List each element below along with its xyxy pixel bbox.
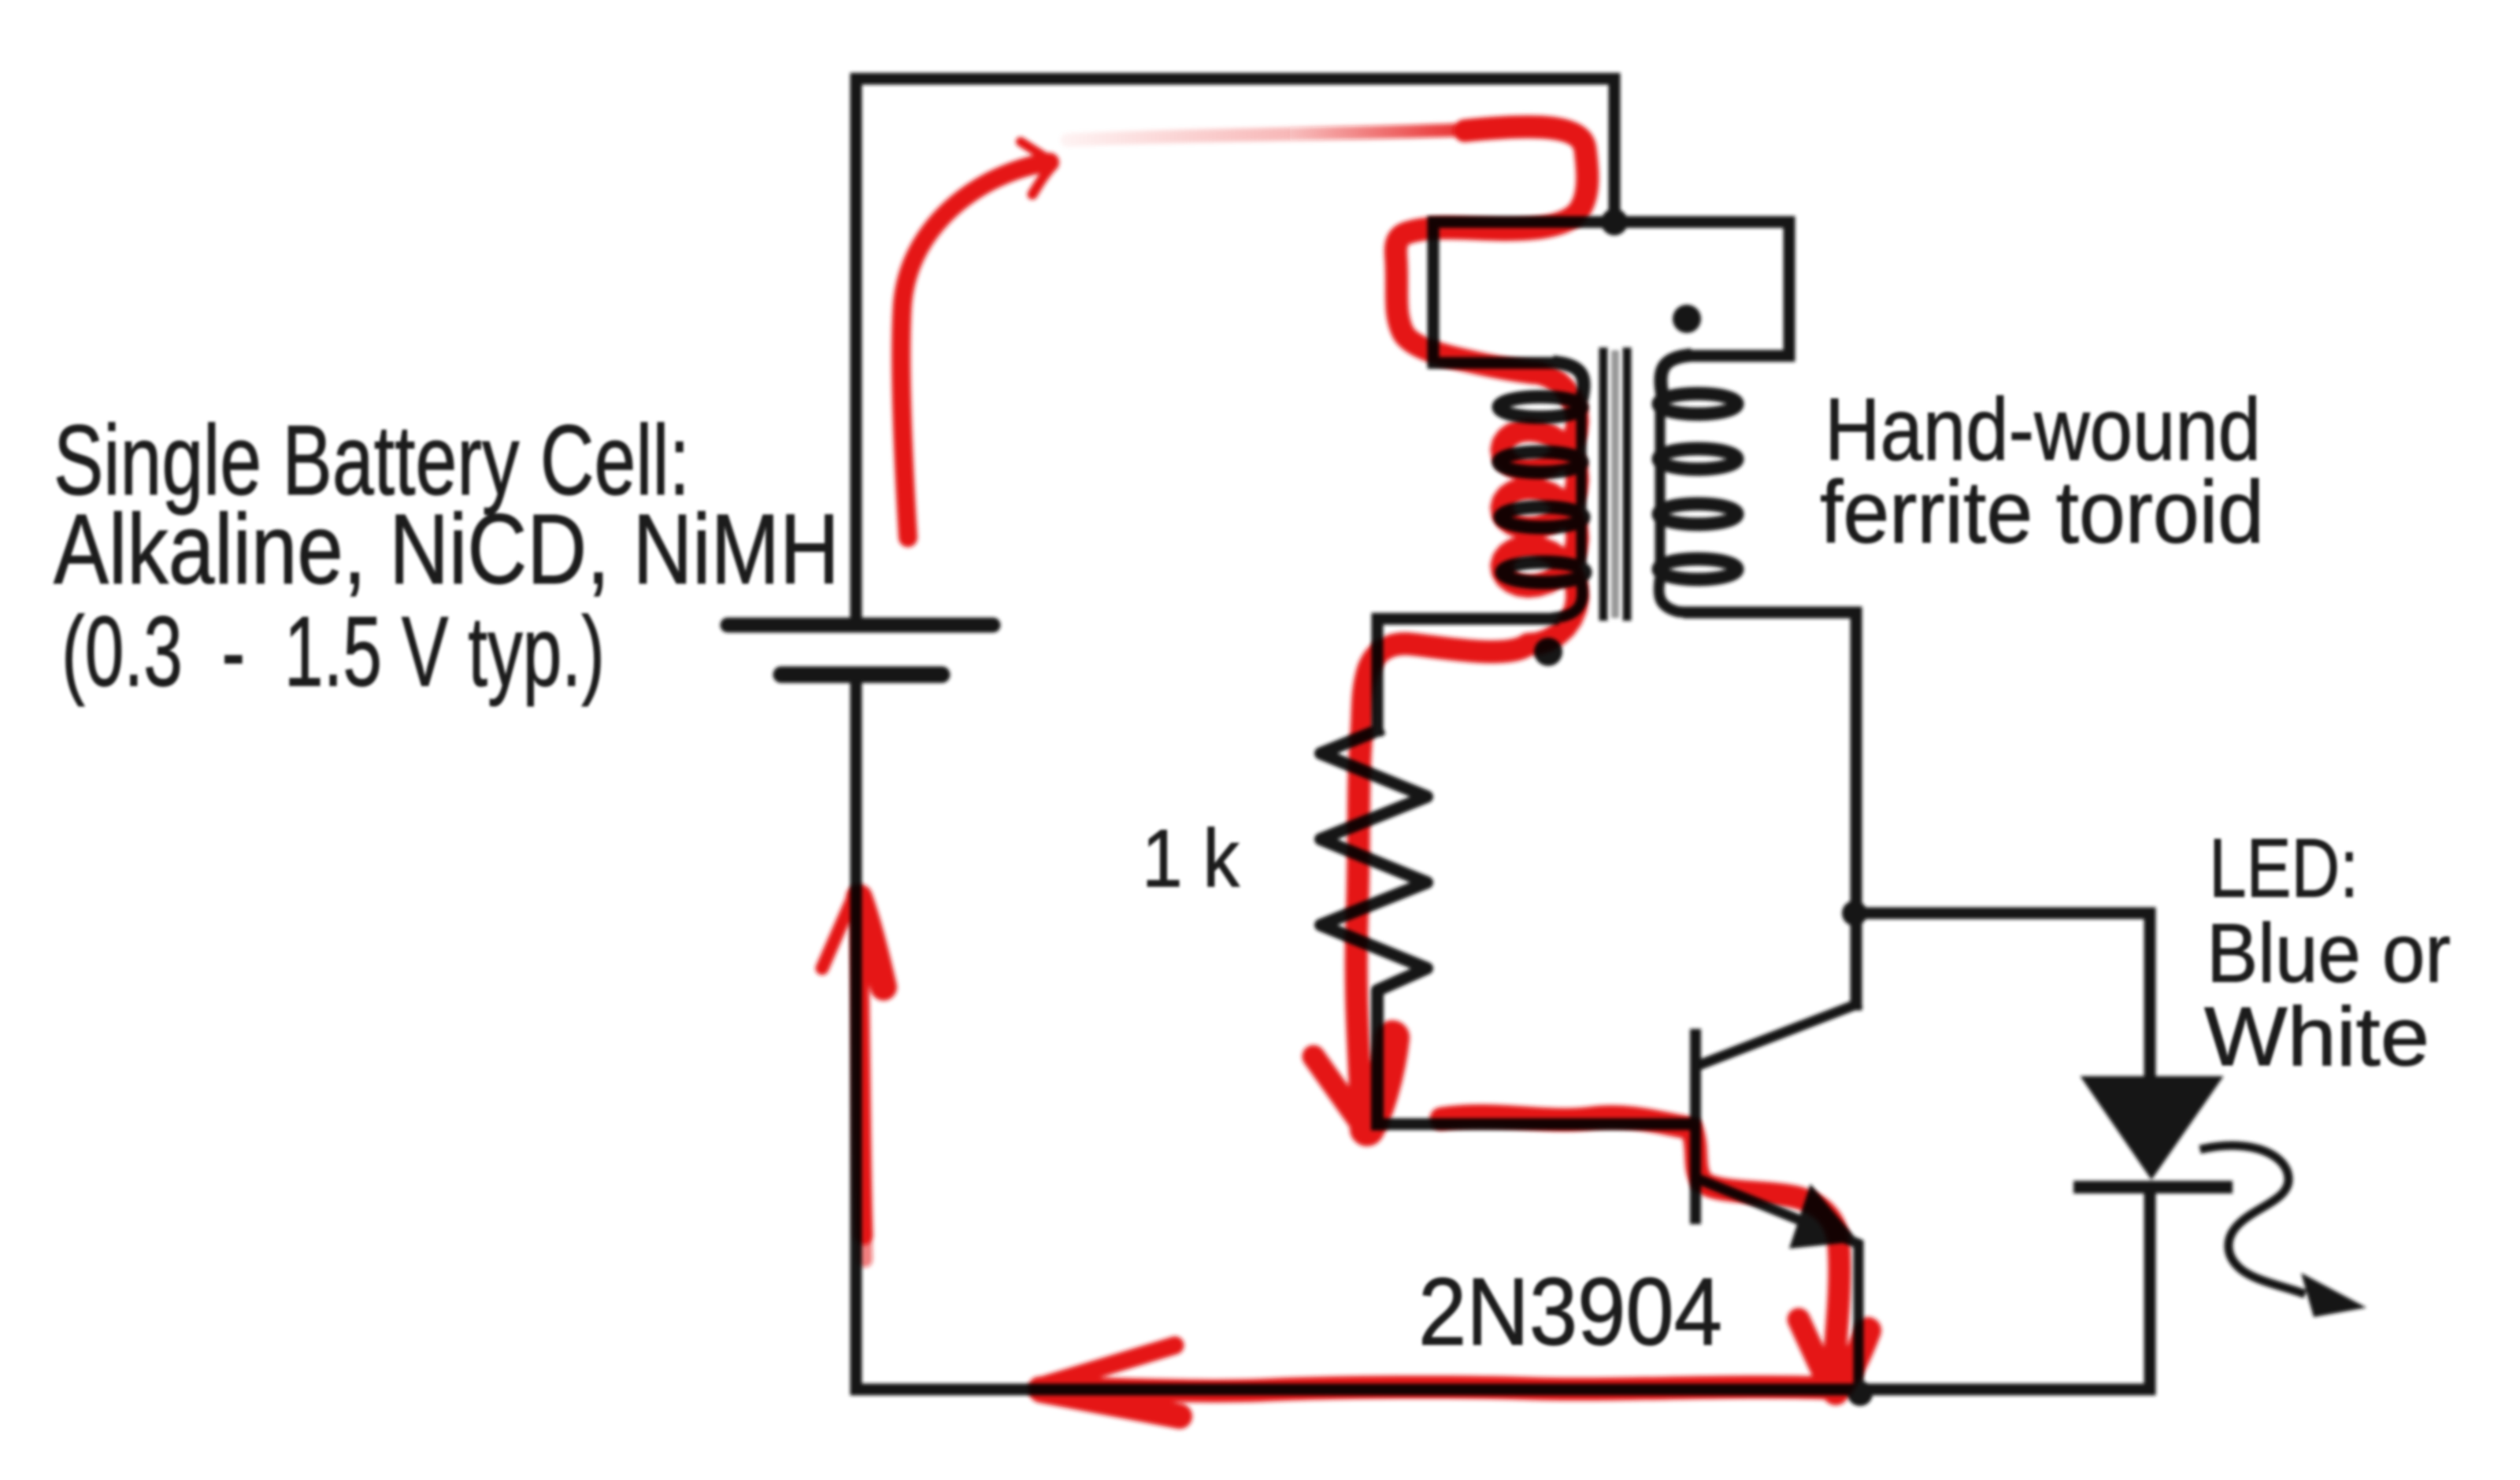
svg-text:2N3904: 2N3904	[1418, 1258, 1722, 1365]
wire: center tap horizontal	[1433, 216, 1789, 228]
wire: secondary bottom leg to collector node	[1689, 612, 1856, 1005]
wire: battery - down left side to bottom rail	[856, 675, 2150, 1389]
node: emitter / bottom rail junction	[1847, 1381, 1873, 1406]
wire: junction to LED anode	[1856, 908, 2150, 919]
LED D1 cathode wire to bottom rail	[2144, 1187, 2156, 1389]
red annotation: resistor arrowhead wing right (thick)	[1367, 1038, 1392, 1129]
LED light emission squiggle arrow	[2204, 1145, 2301, 1293]
LED D1 anode wire	[2144, 913, 2156, 1081]
transformer T1 core middle line	[1611, 354, 1619, 614]
wire: resistor bottom to transistor base	[1377, 1119, 1691, 1130]
svg-text:ferrite toroid: ferrite toroid	[1820, 463, 2264, 561]
wire: primary bottom leg to resistor	[1377, 619, 1553, 731]
svg-text:White: White	[2204, 990, 2429, 1083]
red annotation: resistor arrowhead wing left	[1314, 1056, 1362, 1124]
svg-text:Blue or: Blue or	[2207, 907, 2451, 1000]
red annotation: arrowhead wing upper (battery arrow)	[1021, 142, 1051, 161]
wire: primary top leg	[1433, 222, 1559, 363]
LED D1 triangle	[2088, 1080, 2216, 1173]
red annotation: path over transformer tap and primary winding scribble	[1356, 127, 1588, 1101]
LED squiggle arrowhead	[2301, 1273, 2366, 1317]
wire: top rail from battery + to transformer tap	[856, 79, 1614, 625]
red annotation: path along base wire and around transistor to emitter	[1441, 1116, 1840, 1379]
node: collector / LED junction	[1842, 901, 1867, 926]
transistor Q1 base bar	[1690, 1034, 1701, 1219]
red annotation: bottom arrowhead wing upper	[1039, 1345, 1175, 1386]
red annotation: faint trail along top wire	[1067, 128, 1516, 140]
svg-text:(0.3 - 1.5 V typ.): (0.3 - 1.5 V typ.)	[61, 596, 605, 707]
wire: secondary top leg	[1685, 222, 1789, 356]
resistor R1 1k zigzag	[1321, 731, 1427, 1124]
transformer T1 core left line	[1599, 352, 1608, 616]
red annotation: emitter arrowhead wing left	[1799, 1319, 1831, 1389]
battery B1 negative plate	[781, 667, 942, 683]
red annotation: current arrow up from battery positive	[901, 162, 1050, 538]
red annotation: left wire arrowhead wing left	[822, 893, 855, 968]
red annotation: bottom arrowhead wing lower	[1041, 1390, 1180, 1416]
red annotation: return path along bottom rail	[1039, 1387, 1825, 1391]
svg-text:1 k: 1 k	[1142, 813, 1240, 905]
transistor Q1 collector lead	[1701, 1005, 1856, 1064]
node: transformer center tap junction	[1601, 209, 1628, 235]
transformer T1 secondary winding (4 turns)	[1658, 356, 1737, 612]
battery B1 positive plate	[728, 618, 993, 633]
red annotation: up arrow on lower left wire	[858, 896, 864, 1236]
transistor Q1 emitter lead	[1701, 1180, 1858, 1389]
transformer T1 core right line	[1623, 352, 1632, 616]
LED D1 cathode bar	[2080, 1181, 2226, 1193]
transistor Q1 emitter arrowhead	[1789, 1184, 1858, 1249]
transformer T1 primary winding (4 turns)	[1499, 363, 1585, 618]
svg-text:Alkaline, NiCD, NiMH: Alkaline, NiCD, NiMH	[54, 494, 839, 605]
transformer T1 phase dot (secondary)	[1673, 305, 1701, 333]
svg-text:LED:: LED:	[2209, 822, 2359, 915]
red annotation: arrowhead wing lower (battery arrow)	[1032, 165, 1054, 194]
red annotation: left wire arrowhead wing right	[859, 897, 884, 987]
transformer T1 phase dot (primary)	[1534, 638, 1562, 666]
red annotation: emitter arrowhead wing right (thick)	[1836, 1330, 1868, 1392]
